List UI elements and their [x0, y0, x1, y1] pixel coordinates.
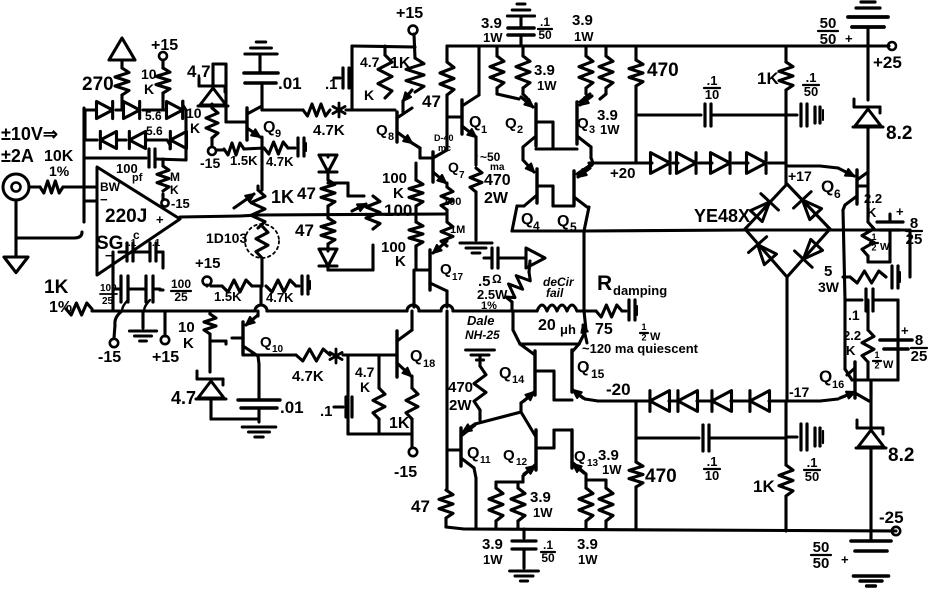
- resistor 100K up: [409, 163, 423, 214]
- svg-text:K: K: [360, 379, 370, 395]
- label 10 K: [186, 105, 202, 136]
- resistor 1K box: [390, 55, 424, 92]
- svg-text:Q: Q: [467, 445, 479, 462]
- cap 8/25 low: [880, 323, 927, 365]
- resistor 10K 1%: [40, 148, 74, 193]
- svg-text:YE48X: YE48X: [694, 206, 750, 226]
- svg-text:3.9: 3.9: [482, 536, 503, 553]
- wire q2q3 bases: [536, 122, 577, 149]
- wire box bottom low: [348, 432, 412, 435]
- svg-text:47: 47: [411, 497, 430, 516]
- wire q12 bases: [536, 430, 572, 448]
- svg-text:NH-25: NH-25: [465, 328, 500, 342]
- svg-text:.1: .1: [707, 73, 718, 88]
- svg-text:5.6: 5.6: [146, 124, 163, 138]
- transistor Q7: [412, 95, 465, 183]
- terminal -15 mid: [200, 147, 220, 171]
- wire: [868, 230, 890, 262]
- wire q2 collector: [521, 147, 524, 160]
- label 10K low: [178, 319, 195, 352]
- svg-text:470: 470: [448, 379, 473, 396]
- inductor 20uh: [537, 305, 577, 337]
- wire: [29, 185, 40, 188]
- cap 50/50 top: [818, 2, 888, 48]
- transistor Q13: [572, 430, 622, 477]
- wire row 1.5K: [216, 148, 224, 151]
- resistor 1.5K: [224, 143, 258, 168]
- wire q6 emitter: [843, 205, 845, 300]
- svg-text:8.2: 8.2: [888, 445, 914, 466]
- resistor 47 a: [297, 180, 335, 206]
- svg-text:.1: .1: [707, 454, 718, 469]
- label Dale: [465, 313, 500, 342]
- diode D8 down: [319, 155, 337, 172]
- wire op-amp minus lead: [84, 199, 97, 202]
- svg-text:2: 2: [871, 243, 876, 253]
- resistor 4.7K mid: [264, 142, 294, 169]
- label .1/50 bottom: [804, 455, 820, 484]
- resistor 4.7K v low: [373, 355, 385, 434]
- wire collector Q9: [262, 106, 303, 110]
- zener 4.7 low: [171, 371, 226, 408]
- wire: [326, 206, 329, 218]
- transistor Q18: [397, 311, 435, 377]
- resistor 10K top: [141, 66, 170, 97]
- terminal +15 box: [396, 5, 423, 58]
- svg-text:1: 1: [641, 322, 646, 332]
- terminal -15: [161, 194, 189, 211]
- svg-text:9: 9: [275, 128, 281, 140]
- svg-text:-20: -20: [606, 380, 631, 399]
- input label: [1, 124, 58, 166]
- bridge vertical bottom: [786, 277, 787, 438]
- svg-text:1: 1: [871, 232, 876, 242]
- label 2.2K: [864, 191, 882, 220]
- svg-text:25: 25: [174, 290, 188, 304]
- svg-text:+: +: [841, 552, 849, 567]
- svg-text:47: 47: [297, 184, 316, 203]
- label 3.9 1W bl: [482, 536, 503, 567]
- resistor 1K right bottom: [753, 438, 793, 531]
- svg-text:50: 50: [538, 28, 552, 42]
- resistor 4.7K low: [266, 280, 296, 305]
- junction star: [333, 103, 345, 117]
- resistor 270: [82, 68, 129, 95]
- svg-text:14: 14: [512, 374, 525, 386]
- svg-text:220J: 220J: [105, 206, 147, 227]
- svg-text:15: 15: [591, 367, 605, 381]
- svg-text:4.7: 4.7: [355, 364, 375, 380]
- diode D2: [116, 101, 166, 118]
- svg-text:100: 100: [100, 283, 117, 294]
- svg-text:.01: .01: [278, 74, 302, 93]
- resistor 470 2W low: [448, 366, 486, 420]
- svg-text:50: 50: [541, 551, 555, 565]
- transistor Q9: [240, 106, 281, 140]
- svg-text:.1: .1: [540, 15, 550, 29]
- wires cap bank: [113, 252, 163, 311]
- transistor Q15: [572, 344, 605, 399]
- svg-text:Ω: Ω: [492, 272, 502, 286]
- svg-text:10: 10: [186, 105, 202, 121]
- arrow out: [498, 248, 545, 268]
- label D-40: [434, 133, 454, 153]
- resistor 10K mid: [206, 104, 218, 146]
- capacitor 100pf: [116, 149, 155, 184]
- svg-text:7: 7: [459, 170, 465, 181]
- svg-text:damping: damping: [613, 283, 667, 298]
- zener D7 4.7: [198, 64, 228, 106]
- svg-text:4.7K: 4.7K: [266, 154, 294, 169]
- capacitor .01 low: [238, 398, 304, 417]
- svg-text:1W: 1W: [537, 78, 557, 93]
- label Rdamping: [597, 272, 667, 298]
- label 3.9 1W a: [481, 15, 503, 45]
- bridge diode TR: [794, 192, 822, 220]
- transistor Q5: [557, 166, 590, 234]
- svg-text:Q: Q: [505, 115, 517, 132]
- resistor 4.7K q10: [292, 349, 330, 385]
- svg-text:3.9: 3.9: [577, 536, 598, 553]
- vertical right bus: [866, 46, 869, 100]
- svg-text:Q: Q: [448, 159, 459, 175]
- label 3.9 1W br: [577, 536, 598, 567]
- transistor Q3: [577, 88, 620, 147]
- svg-text:10: 10: [141, 66, 157, 82]
- svg-text:Q: Q: [263, 119, 275, 136]
- wire: [63, 185, 97, 188]
- cap .1/50 bottom gnd: [510, 529, 555, 581]
- transistor Q12: [503, 412, 536, 476]
- label 5.6: [146, 124, 163, 138]
- diode 1D103 dotted: [245, 224, 279, 258]
- wire trap top: [513, 311, 586, 344]
- svg-text:1.5K: 1.5K: [214, 289, 242, 304]
- svg-text:3W: 3W: [818, 279, 840, 295]
- bridge diode BR: [795, 239, 823, 267]
- svg-text:fail: fail: [546, 286, 564, 300]
- wire q3 collector: [589, 147, 593, 166]
- svg-text:K: K: [183, 335, 194, 352]
- transistor Q11: [461, 425, 491, 468]
- resistor 10K low: [204, 311, 216, 341]
- wire q15 emitter out: [585, 380, 648, 401]
- transistor Q14: [499, 344, 535, 401]
- svg-text:.1: .1: [807, 455, 818, 470]
- svg-text:10: 10: [178, 319, 195, 336]
- wire q10 collector: [256, 311, 259, 316]
- wire q6 collector: [857, 170, 868, 186]
- svg-text:3.9: 3.9: [530, 489, 551, 506]
- zener 8.2 top: [853, 99, 912, 144]
- clamp box left edge: [83, 110, 86, 140]
- resistor .5 ohm: [506, 261, 530, 311]
- resistor 1K q18: [389, 376, 418, 447]
- resistor 5 3W: [818, 230, 910, 295]
- svg-text:K: K: [170, 183, 179, 197]
- svg-text:1W: 1W: [483, 30, 503, 45]
- svg-text:50: 50: [813, 539, 830, 556]
- svg-text:1K: 1K: [757, 69, 779, 88]
- svg-text:-17: -17: [789, 384, 809, 400]
- svg-text:Q: Q: [503, 447, 515, 464]
- svg-text:10: 10: [705, 87, 719, 102]
- svg-text:+17: +17: [788, 168, 812, 184]
- resistor 1K 1%: [44, 277, 92, 316]
- emitter chain Q9: [260, 137, 263, 190]
- label 100/25 b: [171, 277, 191, 304]
- arrow up mid: [581, 325, 587, 343]
- cap bank 2: [113, 276, 160, 302]
- svg-text:1: 1: [874, 350, 879, 360]
- svg-text:25: 25: [906, 231, 923, 248]
- svg-text:−: −: [100, 192, 108, 207]
- label 100K lower: [381, 239, 406, 270]
- svg-text:-15: -15: [98, 349, 121, 366]
- wire: [252, 276, 262, 286]
- bottom rail: [464, 529, 896, 531]
- bridge vertical top: [784, 115, 787, 184]
- ground 470 2W low: [466, 350, 495, 366]
- svg-text:1W: 1W: [483, 552, 503, 567]
- svg-text:3: 3: [589, 124, 595, 136]
- wire +20: [589, 163, 652, 182]
- svg-text:W: W: [883, 359, 894, 371]
- diode D12: [699, 153, 730, 174]
- wire: [261, 258, 262, 305]
- ground input: [4, 200, 82, 273]
- capacitor out: [484, 248, 498, 268]
- resistor 470 bottom: [629, 401, 677, 529]
- svg-text:1M: 1M: [450, 224, 465, 236]
- transistor Q6: [821, 170, 868, 205]
- wire: [343, 353, 397, 356]
- svg-text:Q: Q: [819, 367, 832, 386]
- svg-text:+: +: [156, 212, 164, 227]
- resistor 1.5K low: [211, 280, 252, 304]
- svg-text:μh: μh: [560, 322, 576, 337]
- wire feedback: [84, 156, 146, 159]
- terminal -15 low: [98, 339, 121, 366]
- wire q13 emitter: [586, 474, 606, 488]
- terminal +15 low: [152, 336, 179, 366]
- svg-text:Q: Q: [574, 448, 586, 465]
- svg-text:4.7: 4.7: [360, 54, 380, 70]
- svg-text:20: 20: [538, 317, 556, 334]
- svg-text:1.5K: 1.5K: [230, 153, 258, 168]
- svg-text:10: 10: [272, 344, 284, 355]
- ground q10: [242, 408, 276, 437]
- svg-text:Q: Q: [499, 365, 511, 382]
- diode D4: [85, 131, 117, 148]
- svg-text:8.2: 8.2: [886, 123, 912, 144]
- capacitor .1 box: [325, 68, 352, 93]
- diode D14: [650, 391, 670, 412]
- svg-text:Q: Q: [821, 177, 834, 196]
- svg-text:-15: -15: [200, 155, 220, 171]
- wire output bus: [180, 215, 258, 217]
- svg-text:R: R: [597, 272, 612, 295]
- svg-text:+15: +15: [396, 5, 423, 22]
- svg-text:1K: 1K: [390, 55, 411, 72]
- svg-text:1K: 1K: [271, 187, 294, 207]
- svg-text:1W: 1W: [533, 505, 553, 520]
- svg-text:-25: -25: [879, 508, 904, 527]
- svg-text:Q: Q: [577, 115, 589, 132]
- svg-text:75: 75: [595, 321, 613, 338]
- svg-text:±10V⇒: ±10V⇒: [1, 124, 58, 144]
- svg-text:K: K: [144, 81, 154, 97]
- svg-text:100: 100: [384, 201, 412, 220]
- svg-text:Q: Q: [521, 211, 533, 228]
- svg-text:.1: .1: [806, 70, 817, 85]
- svg-text:Q: Q: [557, 213, 569, 230]
- cap .1/10 bottom: [636, 425, 786, 483]
- wire res to Q2: [497, 88, 527, 99]
- svg-text:.1: .1: [848, 307, 860, 323]
- input connector J1: [3, 174, 29, 200]
- label .1/50 top: [803, 70, 819, 99]
- svg-text:.1: .1: [152, 238, 161, 249]
- label 50ma: [474, 150, 505, 173]
- wire q1 emitter: [474, 137, 477, 165]
- svg-text:25: 25: [911, 348, 928, 365]
- svg-text:Q: Q: [469, 114, 481, 131]
- top rail: [447, 44, 889, 47]
- cap bank 1: [119, 238, 163, 261]
- svg-text:1W: 1W: [602, 462, 622, 477]
- label .5 ohm: [477, 272, 508, 312]
- pot 1K R1: [234, 186, 294, 228]
- diode D11: [673, 153, 696, 174]
- label -17: [789, 384, 809, 400]
- wire: [445, 210, 448, 214]
- svg-text:5.6: 5.6: [145, 109, 162, 123]
- svg-text:2W: 2W: [449, 397, 472, 414]
- wire: [326, 244, 329, 251]
- cap pair right top: [786, 104, 823, 126]
- wire q12 emitter: [496, 476, 523, 488]
- wire: [326, 172, 329, 180]
- svg-text:4.7K: 4.7K: [266, 290, 294, 305]
- arrow symbol up: [109, 38, 135, 68]
- svg-text:1: 1: [481, 124, 487, 136]
- label 1D103: [206, 230, 247, 246]
- cap 8/25 top: [877, 204, 922, 248]
- vertical 447: [445, 311, 448, 490]
- transistor Q10: [232, 315, 284, 356]
- resistor 3.9 c4: [599, 46, 613, 88]
- bridge diode TL: [750, 194, 778, 222]
- resistor 75: [595, 305, 622, 338]
- svg-text:K: K: [846, 343, 856, 358]
- hook -15: [114, 311, 122, 338]
- wire box bottom: [352, 108, 395, 111]
- trapezoid: [512, 206, 589, 231]
- cap 50/50 bottom: [811, 531, 891, 586]
- wire link top: [328, 183, 364, 196]
- svg-text:3.9: 3.9: [534, 62, 555, 79]
- resistor 470 2W: [470, 168, 511, 207]
- ground mid: [129, 311, 156, 341]
- wire: [244, 148, 264, 149]
- svg-text:11: 11: [480, 455, 491, 466]
- svg-text:2: 2: [517, 124, 523, 136]
- ground top .01: [245, 42, 277, 72]
- svg-text:50: 50: [820, 15, 837, 32]
- transistor Q1: [447, 46, 487, 137]
- terminal -25: [879, 508, 904, 535]
- capacitor .1 low: [320, 397, 352, 420]
- resistor 47 top: [422, 46, 454, 111]
- svg-text:1W: 1W: [578, 552, 598, 567]
- wire 470 down: [634, 86, 637, 163]
- svg-text:Q: Q: [260, 334, 272, 351]
- svg-text:+: +: [896, 204, 904, 219]
- vertical x871 low: [869, 380, 872, 428]
- diode D16: [697, 391, 732, 412]
- label 100K upper: [382, 170, 407, 202]
- svg-text:.1: .1: [320, 403, 333, 420]
- cap .5w: [622, 300, 661, 343]
- svg-text:50: 50: [804, 84, 818, 99]
- svg-text:K: K: [395, 253, 406, 270]
- svg-text:1W: 1W: [600, 122, 620, 137]
- wire link bot: [328, 245, 373, 270]
- diode D17: [731, 391, 786, 412]
- svg-text:Q: Q: [376, 122, 388, 139]
- svg-text:+15: +15: [195, 255, 220, 272]
- svg-text:~120 ma quiescent: ~120 ma quiescent: [582, 341, 699, 356]
- svg-text:.1: .1: [128, 238, 137, 249]
- box outline: [352, 46, 415, 110]
- wire: [577, 309, 596, 312]
- label 2.2K low: [843, 328, 861, 358]
- wire to Q16: [786, 392, 855, 401]
- resistor 2.2K low: [862, 300, 894, 380]
- diode D5: [117, 131, 167, 148]
- wire q11 emitter: [474, 468, 476, 529]
- svg-text:10: 10: [705, 468, 719, 483]
- wire: [346, 108, 352, 111]
- resistor 2.2K top: [862, 186, 890, 256]
- svg-text:.01: .01: [280, 398, 304, 417]
- wire: [211, 399, 259, 419]
- cap .1/10 top: [636, 73, 786, 126]
- transistor Q4: [521, 160, 540, 233]
- zener D3 5.6: [167, 101, 187, 119]
- junction star 2: [330, 349, 342, 363]
- svg-text:1K: 1K: [44, 277, 69, 298]
- svg-text:47: 47: [422, 92, 441, 111]
- wire: [869, 447, 872, 531]
- wire q11 base: [447, 448, 461, 451]
- svg-text:17: 17: [452, 272, 464, 283]
- capacitor bypass: [288, 138, 306, 156]
- wire: [210, 341, 226, 372]
- label 100/25: [100, 283, 117, 307]
- svg-text:18: 18: [423, 358, 435, 370]
- wire: [866, 128, 869, 170]
- resistor 1K right top: [757, 46, 793, 115]
- resistor 3.9 d2: [511, 488, 553, 529]
- svg-text:-15: -15: [171, 196, 190, 211]
- ground q1: [460, 192, 492, 253]
- svg-text:470: 470: [645, 466, 677, 487]
- terminal +15 top: [151, 37, 178, 68]
- svg-text:+: +: [845, 31, 853, 46]
- svg-text:+20: +20: [610, 165, 635, 182]
